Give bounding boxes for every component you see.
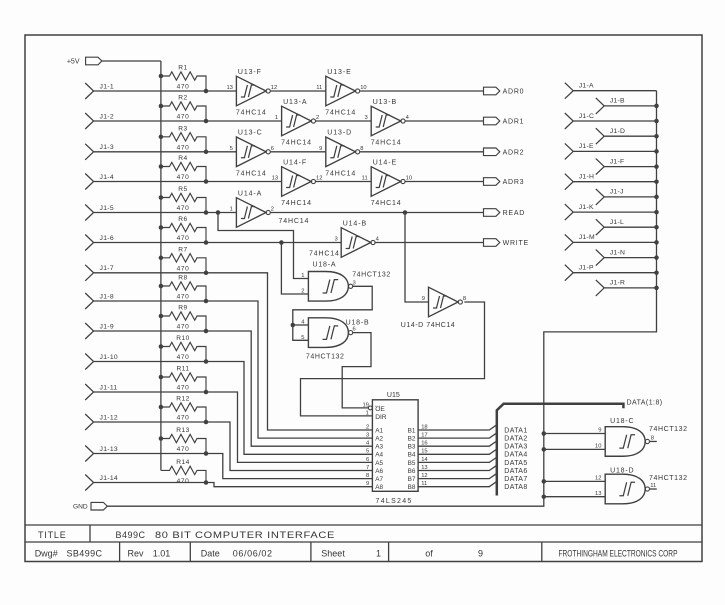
output flag READ	[484, 209, 500, 217]
wire J1-E to common line	[573, 150, 656, 152]
junction R11 to J1-11 wire	[204, 390, 209, 395]
svg-text:74HCT132: 74HCT132	[352, 271, 391, 278]
resistor R5 470	[161, 186, 206, 212]
svg-text:13: 13	[595, 491, 601, 497]
svg-text:DATA2: DATA2	[504, 436, 527, 443]
resistor R11 470	[161, 366, 206, 392]
svg-text:74HC14: 74HC14	[309, 251, 340, 258]
svg-text:1: 1	[376, 549, 381, 559]
junction J1-N	[654, 255, 659, 260]
svg-text:2: 2	[316, 115, 319, 121]
svg-text:11: 11	[316, 85, 322, 91]
output flag ADR2	[484, 148, 500, 156]
nand U18-B	[308, 318, 352, 348]
nand U18-D	[605, 474, 649, 504]
svg-text:8: 8	[651, 435, 654, 441]
svg-text:Date: Date	[201, 549, 220, 559]
connector J1-C	[565, 113, 573, 129]
wire J1-11 to U15 A5	[94, 392, 373, 462]
connector J1-13	[85, 446, 93, 462]
wire J1-H to common line	[573, 181, 656, 183]
wire U15 B5 to data bus	[418, 458, 496, 463]
junction J1-5 branch	[216, 210, 221, 215]
junction R11 to +5V bus	[159, 375, 164, 380]
connector J1-F	[596, 159, 604, 175]
svg-text:U14-B: U14-B	[343, 220, 367, 227]
connector J1-R	[596, 280, 604, 296]
connector J1-J	[596, 189, 604, 205]
inverter U13-C	[230, 130, 274, 178]
junction R10 to +5V bus	[159, 344, 164, 349]
wire U14-A to READ	[270, 212, 483, 214]
wire U18-A output to U18-B pins	[293, 286, 372, 340]
resistor R6 470	[161, 216, 206, 242]
svg-text:U18-D: U18-D	[610, 468, 634, 475]
wire J1-8 to U15 A2	[94, 301, 373, 438]
svg-text:DATA6: DATA6	[504, 468, 527, 475]
svg-text:U14-D 74HC14: U14-D 74HC14	[401, 322, 455, 329]
IC U15 74LS245	[362, 392, 418, 505]
svg-text:R7: R7	[178, 246, 187, 253]
svg-text:6: 6	[366, 457, 369, 463]
svg-text:5: 5	[230, 146, 233, 152]
svg-text:1: 1	[275, 115, 278, 121]
svg-text:U14-A: U14-A	[238, 190, 262, 197]
svg-text:J1-P: J1-P	[579, 265, 594, 272]
svg-text:U13-B: U13-B	[373, 99, 397, 106]
wire J1-2 to gate input	[94, 120, 282, 122]
svg-text:9: 9	[366, 481, 369, 487]
svg-text:J1-D: J1-D	[610, 128, 626, 135]
svg-text:DATA1: DATA1	[504, 427, 527, 434]
svg-text:J1-L: J1-L	[610, 219, 624, 226]
svg-text:U13-D: U13-D	[327, 130, 352, 137]
wire J1-C to common line	[573, 120, 656, 122]
junction J1-R	[654, 286, 659, 291]
svg-text:470: 470	[177, 144, 190, 151]
svg-text:ADR1: ADR1	[503, 119, 525, 126]
connector J1-6	[85, 235, 93, 251]
svg-text:470: 470	[177, 478, 190, 485]
wire J1-5 to gate input	[94, 212, 237, 214]
svg-text:U13-F: U13-F	[238, 69, 262, 76]
svg-text:8: 8	[366, 473, 369, 479]
wire U15 B4 to data bus	[418, 450, 496, 455]
svg-text:A1: A1	[375, 427, 383, 434]
svg-text:J1-3: J1-3	[100, 144, 114, 151]
svg-text:A4: A4	[375, 452, 383, 459]
junction J1-F	[654, 164, 659, 169]
svg-text:TITLE: TITLE	[38, 530, 67, 540]
svg-text:3: 3	[334, 237, 337, 243]
svg-text:J1-A: J1-A	[579, 83, 594, 90]
resistor R12 470	[161, 396, 206, 422]
output flag ADR0	[484, 87, 500, 95]
svg-text:74HC14: 74HC14	[281, 200, 312, 207]
svg-text:2: 2	[271, 207, 274, 213]
junction R3 to J1-3 wire	[204, 150, 209, 155]
svg-text:U13-C: U13-C	[238, 130, 263, 137]
svg-text:74HC14: 74HC14	[325, 170, 356, 177]
inverter U13-A	[275, 99, 319, 147]
svg-text:U14-F: U14-F	[283, 159, 307, 166]
junction J1-M	[654, 240, 659, 245]
junction J1-K	[654, 210, 659, 215]
svg-text:R2: R2	[178, 95, 187, 102]
wire J1-12 to U15 A6	[94, 422, 373, 471]
svg-text:3: 3	[353, 280, 356, 286]
svg-text:B499C: B499C	[116, 530, 146, 540]
svg-text:B7: B7	[408, 476, 416, 483]
svg-text:J1-J: J1-J	[610, 189, 624, 196]
svg-text:10: 10	[406, 176, 412, 182]
output flag ADR1	[484, 117, 500, 125]
resistor R10 470	[161, 335, 206, 361]
junction R2 to +5V bus	[159, 104, 164, 109]
svg-text:ADR3: ADR3	[503, 179, 525, 186]
wire U15 B7 to data bus	[418, 474, 496, 479]
wire READ branch to U14-D input	[405, 213, 429, 303]
svg-text:80 BIT COMPUTER INTERFACE: 80 BIT COMPUTER INTERFACE	[155, 530, 335, 540]
svg-text:2: 2	[301, 289, 304, 295]
wire U13-E to ADR0	[360, 90, 484, 92]
svg-text:J1-N: J1-N	[610, 249, 626, 256]
junction strobe line	[542, 494, 547, 499]
stub U18-C output	[650, 440, 657, 442]
resistor R13 470	[161, 427, 206, 453]
junction R9 to +5V bus	[159, 314, 164, 319]
svg-text:DATA8: DATA8	[504, 484, 527, 491]
wire U18-B output to U15 OE	[342, 333, 371, 408]
svg-text:DATA3: DATA3	[504, 444, 527, 451]
junction J1-E	[654, 149, 659, 154]
svg-text:J1-2: J1-2	[100, 113, 114, 120]
svg-text:+5V: +5V	[67, 59, 80, 66]
connector J1-10	[85, 354, 93, 370]
wire J1-6 branch to U18-A pin2	[281, 243, 308, 295]
svg-text:SB499C: SB499C	[67, 549, 103, 559]
svg-text:10: 10	[595, 444, 601, 450]
svg-text:FROTHINGHAM ELECTRONICS CORP: FROTHINGHAM ELECTRONICS CORP	[559, 549, 678, 559]
svg-text:DATA4: DATA4	[504, 452, 527, 459]
svg-text:J1-7: J1-7	[100, 265, 114, 272]
svg-text:Sheet: Sheet	[321, 549, 345, 559]
svg-text:J1-C: J1-C	[579, 113, 595, 120]
svg-text:U15: U15	[387, 392, 400, 399]
resistor R3 470	[161, 125, 206, 151]
svg-text:13: 13	[272, 176, 278, 182]
svg-text:470: 470	[177, 84, 190, 91]
wire J1 common line to U18 gates	[544, 91, 657, 497]
wire J1-R to common line	[604, 287, 656, 289]
wire strobe to U18 pin 10	[544, 448, 605, 450]
svg-text:74HC14: 74HC14	[371, 200, 402, 207]
junction R5 to +5V bus	[159, 195, 164, 200]
wire J1-5 branch to U18-A pin1	[218, 213, 308, 279]
junction J1-P	[654, 270, 659, 275]
connector J1-3	[85, 144, 93, 160]
junction R4 to +5V bus	[159, 164, 164, 169]
svg-text:A3: A3	[375, 444, 383, 451]
wire J1-4 to gate input	[94, 181, 282, 183]
svg-text:J1-11: J1-11	[100, 384, 118, 391]
nand U18-A	[308, 272, 352, 302]
wire U18-B pin4 stub	[293, 324, 309, 326]
stub U18-D output	[650, 488, 657, 490]
junction R9 to J1-9 wire	[204, 329, 209, 334]
junction strobe line	[542, 431, 547, 436]
wire J1-9 to U15 A3	[94, 331, 373, 446]
svg-text:A8: A8	[375, 484, 383, 491]
connector J1-11	[85, 384, 93, 400]
connector J1-14	[85, 475, 93, 491]
svg-text:9: 9	[598, 428, 601, 434]
svg-text:470: 470	[177, 446, 190, 453]
svg-text:11: 11	[362, 176, 368, 182]
junction R8 to J1-8 wire	[204, 299, 209, 304]
connector J1-L	[596, 219, 604, 235]
output flag WRITE	[484, 239, 500, 247]
connector J1-A	[565, 83, 573, 99]
svg-text:ADR2: ADR2	[503, 149, 525, 156]
svg-text:A7: A7	[375, 476, 383, 483]
svg-text:R6: R6	[178, 216, 187, 223]
wire U15 B1 to data bus	[418, 425, 496, 430]
junction R13 to +5V bus	[159, 436, 164, 441]
svg-text:ADR0: ADR0	[503, 89, 525, 96]
svg-text:74HC14: 74HC14	[236, 110, 267, 117]
svg-text:J1-M: J1-M	[579, 234, 595, 241]
connector J1-8	[85, 293, 93, 309]
data bus DATA(1:8)	[497, 404, 624, 496]
svg-text:U13-E: U13-E	[327, 69, 351, 76]
svg-text:5: 5	[301, 335, 304, 341]
svg-text:R13: R13	[176, 427, 190, 434]
svg-text:470: 470	[177, 174, 190, 181]
junction J1-D	[654, 134, 659, 139]
junction R6 to +5V bus	[159, 225, 164, 230]
junction R7 to J1-7 wire	[204, 271, 209, 276]
svg-text:U14-E: U14-E	[373, 159, 397, 166]
connector J1-M	[565, 234, 573, 250]
svg-text:B2: B2	[408, 436, 416, 443]
wire U13-A to U13-B	[316, 120, 372, 122]
resistor R1 470	[161, 65, 206, 91]
svg-text:B3: B3	[408, 444, 416, 451]
svg-text:J1-B: J1-B	[610, 98, 625, 105]
svg-text:74HC14: 74HC14	[371, 140, 402, 147]
wire strobe to U18 pin 9	[544, 433, 605, 435]
svg-text:1: 1	[366, 410, 369, 416]
junction J1-J	[654, 195, 659, 200]
junction J1-L	[654, 225, 659, 230]
wire U15 B8 to data bus	[418, 482, 496, 487]
svg-text:8: 8	[360, 146, 363, 152]
inverter U13-F	[226, 69, 277, 117]
wire J1-J to common line	[604, 196, 656, 198]
svg-text:B4: B4	[408, 452, 416, 459]
svg-text:J1-F: J1-F	[610, 158, 625, 165]
wire J1-L to common line	[604, 226, 656, 228]
wire J1-10 to U15 A4	[94, 362, 373, 455]
svg-text:9: 9	[478, 549, 483, 559]
junction R14 to J1-14 wire	[204, 480, 209, 485]
junction J1-B	[654, 104, 659, 109]
svg-text:19: 19	[362, 402, 368, 408]
wire J1-K to common line	[573, 211, 656, 213]
svg-text:R9: R9	[178, 305, 187, 312]
connector J1-D	[596, 128, 604, 144]
junction strobe line	[542, 479, 547, 484]
connector J1-E	[565, 143, 573, 159]
junction R1 to +5V bus	[159, 74, 164, 79]
svg-text:DATA(1:8): DATA(1:8)	[627, 400, 663, 407]
junction J1-H	[654, 179, 659, 184]
svg-text:R5: R5	[178, 186, 187, 193]
wire U15 B6 to data bus	[418, 466, 496, 471]
svg-text:1: 1	[301, 273, 304, 279]
resistor R8 470	[161, 275, 206, 301]
svg-text:J1-14: J1-14	[100, 475, 119, 482]
connector J1-B	[596, 98, 604, 114]
resistor R2 470	[161, 95, 206, 121]
junction R6 to J1-6 wire	[204, 240, 209, 245]
connector J1-4	[85, 174, 93, 190]
svg-text:9: 9	[319, 146, 322, 152]
wire U13-C to U13-D	[270, 151, 326, 153]
svg-text:470: 470	[177, 415, 190, 422]
wire J1-6 to gate input	[94, 242, 342, 244]
connector J1-7	[85, 265, 93, 281]
wire J1-13 to U15 A7	[94, 454, 373, 479]
svg-text:10: 10	[360, 85, 366, 91]
svg-text:06/06/02: 06/06/02	[233, 549, 273, 559]
wire U13-F to U13-E	[270, 90, 326, 92]
wire U15 B2 to data bus	[418, 433, 496, 438]
connector J1-9	[85, 323, 93, 339]
svg-text:B6: B6	[408, 468, 416, 475]
svg-text:R12: R12	[176, 396, 190, 403]
svg-text:11: 11	[650, 483, 656, 489]
svg-text:B5: B5	[408, 460, 416, 467]
inverter U13-B	[364, 99, 409, 147]
svg-text:74HCT132: 74HCT132	[649, 426, 688, 433]
svg-text:6: 6	[271, 146, 274, 152]
wire J1-N to common line	[604, 257, 656, 259]
svg-text:GND: GND	[73, 504, 88, 511]
resistor R14 470	[161, 459, 206, 485]
svg-text:of: of	[425, 549, 433, 559]
svg-text:470: 470	[177, 205, 190, 212]
svg-text:B8: B8	[408, 484, 416, 491]
svg-text:74HCT132: 74HCT132	[306, 353, 345, 360]
inverter U13-D	[319, 130, 363, 178]
svg-text:J1-8: J1-8	[100, 293, 114, 300]
svg-text:13: 13	[226, 85, 232, 91]
resistor R7 470	[161, 246, 206, 272]
svg-text:J1-13: J1-13	[100, 446, 119, 453]
power flag +5V	[86, 57, 102, 65]
svg-text:12: 12	[595, 476, 601, 482]
wire J1-F to common line	[604, 166, 656, 168]
svg-text:74HC14: 74HC14	[236, 170, 267, 177]
svg-text:3: 3	[364, 115, 367, 121]
svg-text:J1-4: J1-4	[100, 174, 114, 181]
svg-text:8: 8	[463, 296, 466, 302]
wire U13-B to ADR1	[405, 120, 483, 122]
svg-text:470: 470	[177, 354, 190, 361]
inverter U14-D	[422, 287, 466, 317]
svg-text:12: 12	[316, 176, 322, 182]
svg-text:DIR: DIR	[375, 414, 387, 421]
wire strobe to U18 pin 13	[544, 496, 605, 498]
wire J1-1 to gate input	[94, 90, 237, 92]
junction R1 to J1-1 wire	[204, 89, 209, 94]
inverter U14-E	[362, 159, 412, 207]
svg-text:1.01: 1.01	[153, 549, 171, 559]
junction J1-6 branch	[279, 240, 284, 245]
nand U18-C	[605, 427, 649, 457]
junction strobe line	[542, 447, 547, 452]
inverter U14-B	[334, 220, 379, 257]
svg-text:READ: READ	[503, 210, 525, 217]
svg-text:Rev: Rev	[128, 549, 145, 559]
connector J1-K	[565, 204, 573, 220]
wire strobe to U18 pin 12	[544, 480, 605, 482]
svg-text:B1: B1	[408, 427, 416, 434]
svg-text:3: 3	[366, 433, 369, 439]
ground flag GND	[91, 502, 107, 510]
connector J1-N	[596, 250, 604, 266]
svg-text:R11: R11	[176, 366, 189, 373]
title block	[25, 525, 702, 562]
connector J1-1	[85, 83, 93, 99]
svg-text:J1-H: J1-H	[579, 174, 595, 181]
junction R7 to +5V bus	[159, 256, 164, 261]
svg-text:74HC14: 74HC14	[281, 140, 312, 147]
svg-text:U13-A: U13-A	[283, 99, 307, 106]
wire J1-M to common line	[573, 241, 656, 243]
wire U15 B3 to data bus	[418, 441, 496, 446]
svg-text:7: 7	[366, 465, 369, 471]
svg-text:DATA5: DATA5	[504, 460, 527, 467]
svg-text:U18-A: U18-A	[313, 262, 337, 269]
svg-text:J1-6: J1-6	[100, 235, 114, 242]
wire U13-D to ADR2	[360, 151, 484, 153]
connector J1-H	[565, 174, 573, 190]
wire +5V flag to bus	[102, 60, 161, 62]
svg-text:6: 6	[353, 327, 356, 333]
connector J1-5	[85, 205, 93, 221]
svg-text:J1-K: J1-K	[579, 204, 594, 211]
wire J1-B to common line	[604, 105, 656, 107]
svg-text:J1-9: J1-9	[100, 323, 114, 330]
junction J1-C	[654, 119, 659, 124]
svg-text:R8: R8	[178, 275, 187, 282]
wire +5V vertical bus	[160, 61, 162, 470]
svg-text:J1-5: J1-5	[100, 205, 114, 212]
inverter U14-F	[272, 159, 323, 207]
junction R4 to J1-4 wire	[204, 179, 209, 184]
wire U14-D output to U15 DIR	[301, 302, 485, 416]
svg-text:R4: R4	[178, 155, 187, 162]
svg-text:470: 470	[177, 114, 190, 121]
junction R12 to J1-12 wire	[204, 420, 209, 425]
junction U18-B pin4	[291, 323, 296, 328]
svg-text:DATA7: DATA7	[504, 476, 527, 483]
svg-text:A6: A6	[375, 468, 383, 475]
svg-text:9: 9	[422, 296, 425, 302]
